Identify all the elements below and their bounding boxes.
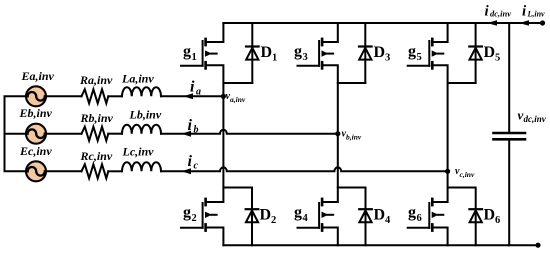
svg-text:3: 3 (385, 53, 390, 64)
label g6 (408, 204, 422, 224)
source Ec,inv (26, 161, 46, 181)
svg-text:L,inv: L,inv (527, 10, 546, 19)
svg-text:g: g (183, 204, 191, 221)
svg-text:g: g (183, 43, 191, 60)
wire source c to resistor (46, 170, 82, 172)
svg-text:dc,inv: dc,inv (524, 114, 547, 124)
label D4 (374, 207, 392, 227)
svg-text:Lb,inv: Lb,inv (129, 107, 162, 121)
diode D5 (448, 23, 482, 83)
arrow ib (182, 131, 192, 137)
svg-text:i: i (188, 153, 193, 170)
arrow idc,inv on rail (487, 20, 497, 26)
svg-text:D: D (260, 207, 272, 224)
svg-text:4: 4 (385, 215, 391, 226)
svg-text:c: c (194, 161, 199, 172)
svg-text:5: 5 (495, 53, 500, 64)
wire bottom DC rail (223, 244, 538, 246)
transistor Q g1 (181, 23, 223, 96)
wire resistor a to inductor (108, 95, 122, 97)
transistor Q g3 (298, 23, 338, 134)
inductor Lb,inv (122, 125, 161, 134)
wire resistor b to inductor (108, 133, 122, 135)
node vc,inv (445, 169, 450, 174)
resistor Rb,inv (82, 127, 109, 141)
node vb,inv (335, 131, 340, 136)
svg-text:b: b (194, 125, 199, 136)
resistor Rc,inv (82, 164, 109, 178)
resistor Ra,inv (82, 89, 109, 103)
label g3 (294, 43, 308, 63)
arrow iL,inv on rail (519, 20, 529, 26)
label iL,inv (522, 4, 545, 20)
svg-text:i: i (522, 4, 527, 20)
svg-text:Eb,inv: Eb,inv (19, 106, 53, 120)
label idc,inv (485, 4, 512, 20)
svg-text:3: 3 (303, 52, 308, 63)
node dot top right (540, 20, 545, 25)
svg-text:D: D (374, 44, 386, 61)
wire source b to resistor (46, 133, 82, 135)
label ia (190, 79, 201, 98)
inductor La,inv (122, 87, 161, 96)
wire neutral to source b (5, 133, 26, 135)
transistor Q g5 (408, 23, 448, 171)
diode D6 (448, 188, 482, 246)
svg-text:D: D (484, 44, 496, 61)
svg-text:Ea,inv: Ea,inv (21, 69, 55, 83)
svg-text:g: g (294, 43, 302, 60)
svg-text:D: D (374, 207, 386, 224)
svg-text:g: g (294, 204, 302, 221)
svg-text:g: g (408, 204, 416, 221)
svg-text:b,inv: b,inv (346, 133, 362, 142)
capacitor C dc (494, 23, 526, 245)
svg-text:6: 6 (495, 215, 500, 226)
label D2 (260, 207, 277, 227)
svg-text:i: i (188, 117, 193, 134)
svg-text:6: 6 (417, 213, 422, 224)
svg-text:i: i (190, 79, 195, 96)
wire top DC rail (223, 22, 542, 24)
svg-text:2: 2 (271, 215, 276, 226)
wire phase a to bridge (161, 95, 223, 97)
wire source a to resistor (46, 95, 82, 97)
label g1 (183, 43, 197, 63)
svg-text:D: D (484, 207, 496, 224)
label D3 (374, 44, 391, 64)
wire left neutral bus (5, 96, 26, 171)
transistor Q g2 (181, 96, 223, 245)
svg-text:a,inv: a,inv (230, 95, 246, 104)
label ic (188, 153, 199, 172)
diode D3 (338, 23, 372, 83)
diode D4 (338, 188, 372, 246)
svg-text:La,inv: La,inv (121, 72, 154, 86)
svg-text:g: g (408, 43, 416, 60)
wire phase c to bridge with hops over leg1 and leg2 (161, 167, 448, 171)
svg-text:D: D (261, 44, 273, 61)
svg-text:dc,inv: dc,inv (490, 9, 511, 19)
svg-text:4: 4 (303, 213, 309, 224)
diode D1 (223, 23, 258, 83)
source Eb,inv (26, 124, 46, 144)
svg-text:c,inv: c,inv (460, 170, 475, 179)
diode D2 (223, 188, 258, 246)
svg-text:Rc,inv: Rc,inv (80, 149, 113, 163)
svg-text:i: i (485, 4, 490, 20)
node va,inv (221, 94, 226, 99)
arrow ia (184, 93, 194, 99)
svg-text:1: 1 (192, 52, 197, 63)
label g5 (408, 43, 422, 63)
svg-text:1: 1 (272, 53, 277, 64)
arrow ic (182, 168, 192, 174)
svg-text:a: a (196, 87, 201, 98)
svg-text:2: 2 (192, 213, 197, 224)
wire phase b to bridge with hop over leg1 (161, 130, 338, 134)
inductor Lc,inv (122, 162, 161, 171)
label vdc,inv (518, 108, 547, 125)
svg-text:Lc,inv: Lc,inv (122, 145, 155, 159)
label D6 (484, 207, 501, 227)
label ib (188, 117, 199, 136)
label D5 (484, 44, 501, 64)
source Ea,inv (26, 86, 46, 106)
svg-text:Ec,inv: Ec,inv (19, 144, 52, 158)
label g2 (183, 204, 197, 224)
label g4 (294, 204, 309, 224)
svg-text:Rb,inv: Rb,inv (80, 111, 114, 125)
node dot bottom right (535, 243, 540, 248)
label D1 (261, 44, 278, 64)
transistor Q g4 (298, 134, 338, 246)
transistor Q g6 (408, 171, 448, 245)
wire resistor c to inductor (108, 170, 122, 172)
svg-text:Ra,inv: Ra,inv (79, 73, 113, 87)
svg-text:5: 5 (417, 52, 422, 63)
